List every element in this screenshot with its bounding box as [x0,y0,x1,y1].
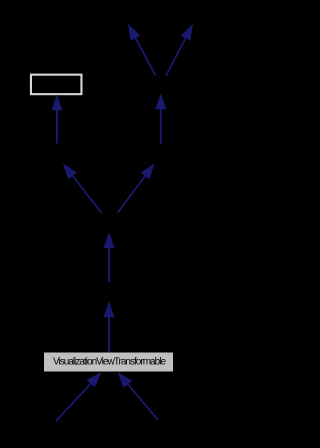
svg-text:VisualizationViewTransformable: VisualizationViewTransformable [53,357,166,368]
